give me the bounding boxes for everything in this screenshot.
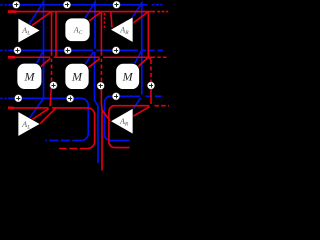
svg-text:M: M <box>71 70 83 84</box>
svg-text:M: M <box>122 70 134 84</box>
svg-text:M: M <box>24 70 36 84</box>
